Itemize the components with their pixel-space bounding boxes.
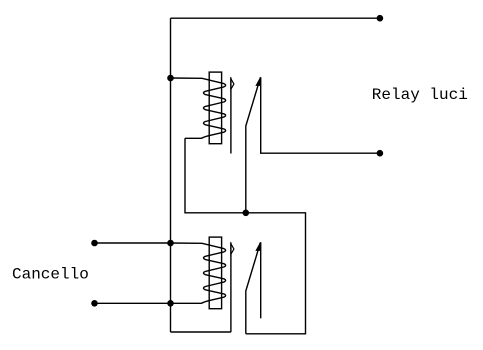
junction B [243,210,250,217]
wire bottom left to K2 armature [171,331,231,333]
relay K1 coil body [209,72,221,144]
relay K2 coil body [209,237,221,309]
wire coil K1 to junction B [185,138,246,213]
relay K2 fixed contact [260,242,262,318]
node terminal dot left upper [91,240,98,247]
wire left terminal to junction C [95,242,171,244]
relay K1 armature flag [231,79,234,89]
relay K2 coil winding [171,243,226,303]
relay K2 armature flag [231,244,234,254]
junction D [167,300,174,307]
junction A (top coil feed) [167,75,174,82]
junction C [167,240,174,247]
wire left vertical [170,18,172,332]
node terminal dot right middle [377,150,384,157]
node terminal dot top right [377,15,384,22]
wire top horizontal [171,17,381,19]
relay K1 switch blade [246,78,261,213]
relay K1 coil winding [171,78,226,138]
svg-text:Relay luci: Relay luci [372,86,468,104]
relay K2 switch blade [246,243,261,334]
wire left terminal to junction D [95,302,171,304]
relay K1 fixed contact [261,77,380,153]
relay K1 blade arrowhead [256,77,260,85]
relay K1 armature [230,77,232,153]
svg-text:Cancello: Cancello [12,266,89,284]
relay K2 blade arrowhead [256,242,260,250]
wire junction B loop to K2 blade [246,213,306,334]
node terminal dot left lower [91,300,98,307]
relay K2 armature [230,242,232,332]
